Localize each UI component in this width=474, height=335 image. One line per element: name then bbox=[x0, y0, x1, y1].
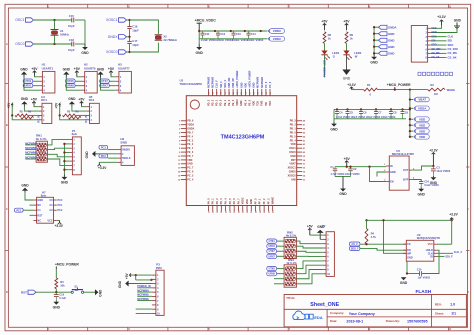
svg-text:C14: C14 bbox=[251, 32, 256, 36]
svg-text:URX1: URX1 bbox=[25, 84, 32, 88]
svg-text:C2: C2 bbox=[353, 167, 357, 171]
net label vertical H5 bbox=[85, 115, 88, 123]
capacitor C6 100nF bbox=[359, 108, 367, 119]
svg-text:MCPWM3: MCPWM3 bbox=[212, 76, 215, 88]
net label vertical H4 bbox=[38, 115, 41, 123]
svg-text:VDD: VDD bbox=[419, 123, 425, 127]
wire SDO_F to DO bbox=[360, 248, 406, 250]
svg-text:10uF V0603: 10uF V0603 bbox=[436, 170, 450, 173]
svg-text:IN: IN bbox=[390, 165, 393, 168]
svg-text:PA_2: PA_2 bbox=[216, 198, 219, 204]
wire sensor pin6 bbox=[431, 48, 447, 50]
net flag OSC1 bbox=[15, 18, 33, 22]
svg-text:GND: GND bbox=[61, 181, 69, 185]
wire RST to node bbox=[36, 291, 71, 293]
svg-text:PB_1: PB_1 bbox=[290, 128, 297, 131]
wire URX to H2 pin3 bbox=[75, 85, 81, 87]
wire VDDC flag stub lower bbox=[262, 38, 268, 40]
svg-text:SDI: SDI bbox=[448, 39, 453, 43]
svg-text:VDDA: VDDA bbox=[187, 124, 194, 127]
net port URX H2 bbox=[66, 84, 76, 88]
svg-text:+MCU_POWER: +MCU_POWER bbox=[387, 83, 411, 87]
svg-text:OSC0: OSC0 bbox=[289, 151, 296, 154]
capacitor C5 100nF bbox=[346, 108, 354, 119]
wire left rail H5 bbox=[60, 105, 87, 120]
wire bottom rail drop bbox=[333, 109, 335, 122]
svg-text:POWER_LED: POWER_LED bbox=[323, 60, 327, 77]
svg-text:PC1: PC1 bbox=[16, 209, 21, 212]
svg-text:UTX7: UTX7 bbox=[269, 250, 276, 253]
ground flag P2 bbox=[317, 225, 325, 239]
svg-text:RC_IN: RC_IN bbox=[85, 115, 88, 123]
svg-text:2019-08-1: 2019-08-1 bbox=[346, 319, 363, 323]
wire +3.3V to H6 pin4 bbox=[99, 161, 118, 163]
header H1 USART1 bbox=[39, 62, 55, 93]
svg-text:4k 0.1%: 4k 0.1% bbox=[286, 233, 297, 237]
net port UTX H2 bbox=[66, 79, 76, 83]
wire MCPWM4 to P3 bbox=[137, 291, 152, 293]
svg-text:VDDC: VDDC bbox=[273, 37, 282, 41]
ground flag H7 bbox=[21, 183, 29, 192]
svg-text:OSC1: OSC1 bbox=[15, 18, 24, 22]
wire DI to SDI_F bbox=[437, 255, 445, 257]
capacitor C14 100nF bbox=[247, 31, 264, 42]
svg-text:GNDA: GNDA bbox=[187, 128, 194, 131]
svg-text:GND: GND bbox=[21, 97, 29, 101]
wire +5V to H2 pin1 bbox=[77, 75, 82, 77]
svg-text:+5V: +5V bbox=[74, 67, 81, 71]
junction flash rail right bbox=[451, 219, 453, 221]
wire R to pin3 H4 bbox=[28, 114, 39, 116]
svg-text:CS_MS: CS_MS bbox=[431, 52, 440, 55]
svg-text:XOSC1: XOSC1 bbox=[106, 18, 118, 22]
svg-text:TDI: TDI bbox=[265, 102, 268, 106]
svg-text:C15: C15 bbox=[69, 14, 75, 18]
svg-text:MIC5219-3.3YM5: MIC5219-3.3YM5 bbox=[392, 152, 414, 156]
svg-text:4.7uF V0603 100nF V0603 100nF: 4.7uF V0603 100nF V0603 100nF V0603 100n… bbox=[336, 116, 396, 119]
junction P3 b bbox=[150, 279, 152, 281]
svg-text:GND: GND bbox=[388, 38, 394, 42]
svg-text:GND: GND bbox=[240, 82, 243, 88]
svg-text:GND: GND bbox=[370, 61, 378, 65]
header P3 PMU bbox=[152, 263, 164, 316]
svg-text:CS_ICM: CS_ICM bbox=[448, 47, 459, 51]
svg-text:PC_4: PC_4 bbox=[187, 178, 194, 181]
svg-text:UTX6: UTX6 bbox=[67, 79, 74, 83]
svg-text:PA_0: PA_0 bbox=[207, 198, 210, 204]
wire sensor pin5 bbox=[431, 44, 447, 46]
net port VDD bbox=[409, 136, 413, 138]
svg-text:VBAT: VBAT bbox=[418, 98, 426, 102]
svg-text:OSC1: OSC1 bbox=[289, 147, 296, 150]
wire sensor pin2 to GND bbox=[431, 26, 457, 33]
capacitor C24 0.1uF bbox=[419, 180, 439, 187]
svg-text:C4: C4 bbox=[339, 111, 343, 115]
svg-text:OUT: OUT bbox=[403, 169, 409, 172]
svg-text:GND: GND bbox=[290, 155, 296, 158]
wire +5V to H4 pin1 bbox=[34, 105, 39, 107]
svg-text:GND: GND bbox=[250, 199, 253, 205]
svg-text:PA_4: PA_4 bbox=[225, 198, 228, 204]
junction VDDC rail bbox=[244, 30, 246, 32]
svg-text:8pin: 8pin bbox=[72, 132, 78, 136]
capacitor C4 4.7uF bbox=[335, 108, 343, 119]
svg-text:CLK_F: CLK_F bbox=[454, 250, 463, 254]
resistor R pullup b H4 bbox=[21, 110, 34, 119]
capacitor C19 0.1uF bbox=[54, 292, 67, 300]
svg-text:CS: CS bbox=[407, 243, 411, 246]
svg-text:SDO: SDO bbox=[448, 43, 454, 47]
title block bbox=[284, 295, 466, 327]
svg-text:VDD: VDD bbox=[253, 100, 256, 105]
svg-text:CLK_F: CLK_F bbox=[216, 80, 219, 88]
crystal X2 32.768kHz bbox=[155, 34, 178, 41]
svg-text:PC1: PC1 bbox=[58, 204, 63, 207]
svg-text:NC: NC bbox=[37, 204, 41, 207]
wire R3 to reset node bbox=[55, 289, 57, 292]
svg-text:VDD: VDD bbox=[419, 129, 425, 133]
svg-text:Drawn By:: Drawn By: bbox=[386, 319, 400, 323]
svg-text:VDDA: VDDA bbox=[418, 107, 427, 111]
wire EN feed bbox=[370, 167, 387, 182]
wire GND to H3 pin4 bbox=[101, 78, 116, 91]
resistor network RN2 bbox=[284, 231, 297, 259]
svg-text:+5V: +5V bbox=[31, 67, 38, 71]
svg-text:GND: GND bbox=[20, 67, 28, 71]
svg-text:PMU: PMU bbox=[156, 266, 162, 270]
svg-text:GND: GND bbox=[99, 289, 103, 297]
svg-text:32.768kHz: 32.768kHz bbox=[163, 38, 177, 42]
wire OSC1 to C15 bbox=[34, 19, 72, 21]
svg-text:UTX1: UTX1 bbox=[269, 240, 276, 243]
junction P3 a bbox=[135, 274, 137, 276]
svg-text:VCC: VCC bbox=[428, 243, 433, 246]
wire URX1 into RN2 bbox=[277, 245, 285, 247]
svg-text:CS_AK: CS_AK bbox=[431, 56, 439, 59]
svg-text:R9: R9 bbox=[350, 33, 354, 37]
wire GND into H7 bbox=[25, 193, 33, 200]
svg-text:UTX7: UTX7 bbox=[101, 79, 108, 83]
svg-text:PC_7: PC_7 bbox=[187, 167, 194, 170]
svg-text:CS_ICM: CS_ICM bbox=[431, 48, 440, 51]
svg-text:USB_DP: USB_DP bbox=[232, 78, 235, 88]
junction CS node bbox=[365, 243, 367, 245]
wire LDO gnd pin bbox=[377, 172, 386, 177]
net flag RST bbox=[21, 290, 36, 294]
svg-text:PE_1: PE_1 bbox=[187, 147, 194, 150]
junction XOSC1 bbox=[128, 19, 130, 21]
svg-text:PE_2: PE_2 bbox=[228, 99, 231, 106]
wire URX6 into RN3 bbox=[277, 273, 285, 275]
power flag +MCU_POWER reset bbox=[55, 262, 79, 278]
junction H4 bbox=[11, 114, 13, 116]
power flag +5V H2 bbox=[74, 67, 81, 76]
svg-text:XOSC1: XOSC1 bbox=[288, 167, 297, 170]
capacitor C20 1uF bbox=[417, 269, 431, 280]
ground flag H4 bbox=[21, 97, 29, 107]
wire R8 to LED1 bbox=[324, 44, 326, 51]
svg-text:URX7: URX7 bbox=[269, 255, 276, 258]
wire CS_F to CS bbox=[360, 243, 406, 245]
ground of input caps bbox=[339, 177, 347, 197]
svg-text:C3: C3 bbox=[436, 165, 440, 169]
svg-text:PC_5: PC_5 bbox=[187, 174, 194, 177]
svg-text:R8: R8 bbox=[328, 33, 332, 37]
resistor R4 4.7k bbox=[365, 229, 376, 245]
svg-text:PD_0: PD_0 bbox=[220, 99, 223, 106]
svg-text:TM4C123GH6PM: TM4C123GH6PM bbox=[221, 134, 265, 140]
wire UTX to H3 pin2 bbox=[109, 80, 115, 82]
wire OSC0 to C18 bbox=[34, 43, 72, 45]
wire UTX to H1 pin2 bbox=[33, 80, 39, 82]
wire RN2 out 4 to P2 bbox=[296, 255, 323, 257]
wire input caps bottom bbox=[335, 176, 351, 178]
svg-text:MCPWM2: MCPWM2 bbox=[208, 76, 211, 88]
svg-text:VBAT: VBAT bbox=[289, 163, 296, 166]
svg-text:CLK: CLK bbox=[448, 34, 454, 38]
junction flash gnd bbox=[406, 272, 408, 274]
wire H7 left pins bbox=[23, 205, 33, 215]
junction LDO out bbox=[432, 165, 434, 167]
svg-text:GND: GND bbox=[63, 67, 71, 71]
svg-text:S1: S1 bbox=[74, 284, 78, 288]
svg-text:A: A bbox=[6, 42, 8, 46]
svg-text:16MHz: 16MHz bbox=[60, 33, 69, 37]
wire XOSC loop bbox=[130, 20, 159, 34]
header H4 RC bbox=[39, 95, 52, 124]
svg-text:+MCU_POWER: +MCU_POWER bbox=[249, 70, 252, 87]
svg-text:+MCU_POWER: +MCU_POWER bbox=[236, 70, 239, 87]
svg-text:GND: GND bbox=[343, 76, 351, 80]
wire URX to H3 pin3 bbox=[109, 85, 115, 87]
power flag +3.3V rail bbox=[347, 83, 356, 90]
svg-text:URX6: URX6 bbox=[67, 84, 74, 88]
net port UTX6 RN3 bbox=[267, 267, 277, 271]
net flag GND tie bbox=[373, 38, 394, 42]
svg-text:PC_5: PC_5 bbox=[265, 81, 268, 88]
net port UTX H3 bbox=[100, 79, 110, 83]
wire RN2 out 3 to P2 bbox=[296, 251, 323, 252]
crystal X1 16MHz bbox=[51, 29, 70, 36]
svg-text:URX6: URX6 bbox=[269, 273, 276, 276]
svg-text:4k 0.1%: 4k 0.1% bbox=[36, 137, 47, 141]
svg-text:64B: 64B bbox=[291, 178, 296, 181]
wire VDDC flag stub upper bbox=[266, 30, 268, 32]
net port VDD bbox=[409, 130, 413, 132]
svg-text:PC0: PC0 bbox=[58, 199, 63, 202]
svg-text:GNDX: GNDX bbox=[289, 171, 296, 174]
power flag +5V PMU rotated bbox=[125, 272, 132, 279]
svg-text:+3.3V: +3.3V bbox=[98, 166, 107, 170]
svg-text:+5V: +5V bbox=[307, 224, 314, 228]
net flag GNDX bbox=[108, 35, 127, 39]
svg-text:VDD: VDD bbox=[244, 82, 247, 87]
wire C20 to HOLD bbox=[422, 250, 439, 273]
svg-text:C11: C11 bbox=[205, 32, 210, 36]
wire UTX6 into RN3 bbox=[277, 268, 285, 270]
ground of P1 bbox=[61, 175, 69, 185]
wire UTX1 into RN2 bbox=[277, 240, 285, 242]
wire crystal X1 vertical bbox=[54, 20, 56, 30]
svg-text:PC_6: PC_6 bbox=[269, 81, 272, 88]
wire RN1 out 1 to P1 bbox=[47, 140, 69, 145]
header H5 RC bbox=[86, 95, 99, 124]
MCU U3 TM4C123GH6PM body bbox=[180, 79, 297, 206]
svg-text:+5V: +5V bbox=[78, 98, 85, 102]
svg-text:VDD: VDD bbox=[419, 117, 425, 121]
wire CLK to CLK_F bbox=[437, 252, 453, 254]
wire RN1 out 2 to P1 bbox=[47, 148, 69, 149]
svg-text:RST: RST bbox=[37, 214, 42, 217]
svg-text:TCK: TCK bbox=[257, 101, 260, 106]
net port URX7 RN2 bbox=[267, 254, 277, 258]
ground of decoupling rail bbox=[330, 122, 338, 131]
power flag +3.3V sensor bbox=[437, 15, 446, 25]
svg-text:C19: C19 bbox=[59, 293, 64, 297]
flash U2 W25Q16JVSSIQ bbox=[403, 233, 440, 261]
svg-text:GND: GND bbox=[388, 32, 394, 36]
wire VDDC left drop to ground bbox=[198, 31, 200, 44]
wire decoupling bottom rail bbox=[334, 118, 406, 120]
svg-text:C: C bbox=[6, 207, 8, 211]
svg-text:GND: GND bbox=[418, 192, 426, 196]
wire XOSC flags stubs bbox=[127, 19, 130, 21]
svg-text:SWCLK: SWCLK bbox=[122, 158, 131, 160]
svg-text:10pF: 10pF bbox=[68, 48, 75, 52]
wire RN3 out 2 to P2 bbox=[296, 265, 323, 273]
svg-text:+MCU_VDDC: +MCU_VDDC bbox=[195, 19, 217, 23]
svg-text:C5: C5 bbox=[350, 111, 354, 115]
wire +3.3V to R1 bbox=[352, 89, 364, 91]
wire sensor pin8 bbox=[431, 57, 447, 59]
wire POWER_IN to P3 bbox=[137, 287, 152, 289]
ground flag sensor bbox=[454, 18, 462, 28]
capacitor C3 10uF bbox=[431, 165, 451, 176]
svg-text:1uF V0603: 1uF V0603 bbox=[418, 277, 431, 280]
wire power vertical bus bbox=[409, 90, 411, 137]
svg-text:D: D bbox=[6, 290, 8, 294]
svg-text:+5V: +5V bbox=[108, 67, 115, 71]
svg-text:TMS: TMS bbox=[261, 100, 264, 105]
svg-text:UTX6: UTX6 bbox=[269, 268, 276, 271]
svg-text:+5V: +5V bbox=[31, 98, 38, 102]
ground of LED2 bbox=[342, 70, 351, 81]
svg-text:PF_0: PF_0 bbox=[254, 198, 257, 204]
svg-text:EDA: EDA bbox=[314, 315, 323, 320]
wire +5V to H1 pin1 bbox=[35, 75, 40, 77]
ground of C19 bbox=[53, 301, 61, 310]
wire gnd to C20 bbox=[407, 273, 420, 275]
capacitor C11 2.2uF bbox=[201, 31, 218, 42]
wire right vertical to ground bbox=[84, 20, 86, 44]
junction H5 bbox=[59, 114, 61, 116]
wire ground tie bus bbox=[373, 27, 375, 53]
svg-text:1k: 1k bbox=[328, 37, 331, 41]
wire P3 pin10 bbox=[136, 312, 152, 314]
svg-text:2.2uF V0603: 2.2uF V0603 bbox=[201, 38, 217, 42]
wire PC2 to H6 pin3 bbox=[108, 157, 118, 159]
svg-text:PE_5: PE_5 bbox=[248, 99, 251, 106]
wire VDDC top rail bbox=[199, 30, 265, 32]
wire UTX7 into RN2 bbox=[277, 250, 285, 252]
wire RN2 out 1 to P2 bbox=[296, 241, 323, 244]
svg-text:URX7: URX7 bbox=[101, 84, 108, 88]
svg-text:GND: GND bbox=[68, 97, 76, 101]
ground flag H3 bbox=[97, 67, 105, 77]
junction VDDC rail bbox=[198, 30, 200, 32]
wire RN2 out 2 to P2 bbox=[296, 246, 323, 248]
wire LED1 down bbox=[324, 55, 326, 78]
svg-text:PD_4: PD_4 bbox=[290, 139, 297, 142]
junction LDO in a bbox=[346, 166, 348, 168]
svg-text:B: B bbox=[6, 123, 8, 127]
svg-text:1.0: 1.0 bbox=[450, 303, 455, 307]
svg-text:PF_2: PF_2 bbox=[263, 198, 266, 204]
svg-text:10pF: 10pF bbox=[132, 28, 139, 32]
svg-text:GND: GND bbox=[81, 51, 89, 55]
svg-text:R1: R1 bbox=[367, 83, 371, 87]
svg-text:CS_MS: CS_MS bbox=[448, 51, 457, 55]
svg-text:+5V: +5V bbox=[55, 102, 59, 109]
svg-text:4.7uF V0603 100nF V0603: 4.7uF V0603 100nF V0603 bbox=[331, 173, 361, 176]
ground right of S1 bbox=[95, 289, 103, 297]
header P1 bbox=[69, 129, 81, 175]
svg-text:C20: C20 bbox=[417, 269, 422, 272]
wire PC3 to H6 pin1 bbox=[108, 149, 118, 151]
svg-text:GND: GND bbox=[53, 305, 61, 309]
svg-text:W25Q16JVSSIQTR: W25Q16JVSSIQTR bbox=[417, 236, 440, 240]
power flag +3.3V flash bbox=[449, 213, 458, 221]
wire URX to H1 pin3 bbox=[33, 85, 39, 87]
junction decoupling rail joint bbox=[409, 108, 411, 110]
resistor R pullup a H5 bbox=[63, 110, 76, 116]
svg-text:PE_0: PE_0 bbox=[187, 151, 194, 154]
net port URX H3 bbox=[100, 84, 110, 88]
svg-text:8pin: 8pin bbox=[41, 193, 47, 197]
svg-text:USART1: USART1 bbox=[42, 66, 54, 70]
svg-text:GND: GND bbox=[196, 51, 204, 55]
svg-text:PC2: PC2 bbox=[58, 209, 63, 212]
wire sensor pin3 bbox=[431, 36, 447, 38]
capacitor C8 100nF bbox=[389, 108, 397, 119]
svg-text:GNDA: GNDA bbox=[388, 25, 397, 29]
wire GND bus H5 bbox=[72, 107, 86, 111]
net flag GND tie bbox=[373, 32, 394, 36]
net port URX1 RN2 bbox=[267, 244, 277, 248]
wire RN3 in 4 bbox=[274, 283, 284, 285]
svg-text:GND: GND bbox=[118, 280, 122, 288]
svg-text:4k 0.1%: 4k 0.1% bbox=[286, 261, 297, 265]
power flag +5V H1 bbox=[31, 67, 38, 76]
svg-text:PE_3: PE_3 bbox=[232, 99, 235, 106]
net port URX6 RN3 bbox=[267, 272, 277, 276]
junction reset node bbox=[55, 291, 57, 293]
svg-text:+5V: +5V bbox=[344, 157, 351, 161]
wire OUT to +3.3V bbox=[412, 166, 433, 170]
wire RN3 out 3 to P2 bbox=[296, 270, 323, 279]
svg-text:TM4C123GH6PM: TM4C123GH6PM bbox=[180, 82, 203, 86]
svg-text:+3.3V: +3.3V bbox=[449, 213, 458, 217]
svg-text:C18: C18 bbox=[69, 38, 75, 42]
svg-text:VDD: VDD bbox=[246, 199, 249, 204]
svg-text:PA_5: PA_5 bbox=[229, 198, 232, 204]
wire RN1 out 3 to P1 bbox=[47, 154, 69, 157]
svg-text:+5V: +5V bbox=[7, 102, 11, 109]
U3 right pins bbox=[288, 120, 306, 182]
svg-text:VDD: VDD bbox=[291, 143, 296, 146]
svg-text:C12: C12 bbox=[220, 32, 225, 36]
header H3 USART7 bbox=[116, 62, 132, 93]
